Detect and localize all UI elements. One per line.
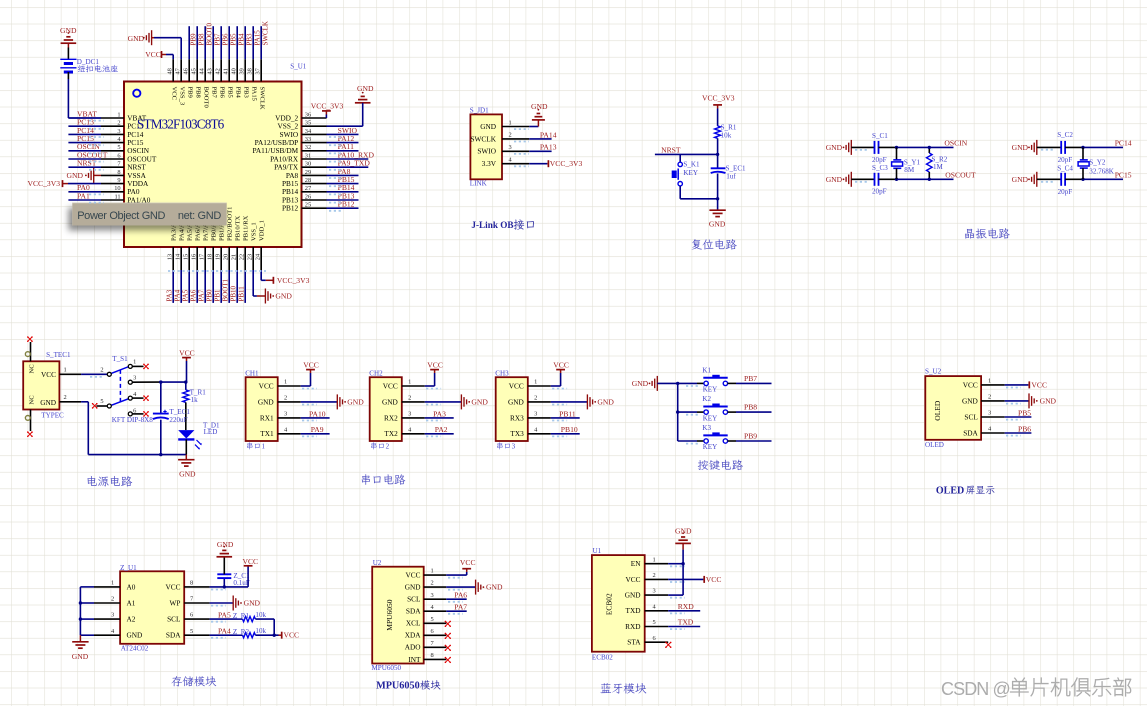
svg-text:2: 2: [431, 580, 434, 587]
svg-text:NRST: NRST: [661, 145, 681, 154]
svg-text:OSCOUT: OSCOUT: [945, 171, 976, 180]
wires bottom ports: [173, 270, 245, 303]
wire JD1 3.3V: [529, 163, 547, 165]
svg-text:GND: GND: [709, 220, 726, 229]
svg-text:48: 48: [166, 68, 173, 74]
svg-text:5: 5: [100, 398, 103, 405]
wire PA14: [529, 138, 551, 140]
svg-text:8: 8: [431, 652, 434, 659]
junction: [895, 178, 898, 181]
svg-text:GND: GND: [962, 396, 978, 405]
svg-text:PB8: PB8: [197, 33, 205, 46]
svg-text:1k: 1k: [191, 396, 199, 404]
label U2: [373, 559, 382, 567]
svg-text:GND: GND: [275, 292, 292, 301]
battery D_DC1: [60, 58, 118, 79]
svg-text:GND: GND: [597, 398, 614, 407]
svg-text:10k: 10k: [721, 131, 732, 139]
svg-text:KEY: KEY: [683, 169, 698, 177]
svg-text:20pF: 20pF: [872, 188, 887, 196]
section title 晶振电路: [965, 228, 1010, 239]
wire SCL: [210, 618, 243, 620]
svg-text:2: 2: [284, 395, 287, 402]
junction: [716, 153, 719, 156]
junction: [1081, 146, 1084, 149]
svg-text:6: 6: [117, 152, 120, 159]
svg-text:OLED: OLED: [936, 485, 964, 496]
svg-text:38: 38: [246, 68, 253, 74]
power VCC T: [179, 348, 195, 382]
connector CH3: [496, 377, 551, 441]
wire keys gnd bus: [657, 383, 697, 441]
wire PC15: [1083, 178, 1123, 180]
section title J-Link OB接口: [471, 219, 534, 230]
svg-text:PB11/RX: PB11/RX: [243, 215, 250, 241]
svg-text:PB11: PB11: [559, 409, 576, 418]
svg-text:PB6: PB6: [1018, 424, 1031, 433]
capacitor S_EC1: [711, 155, 746, 199]
svg-text:OLED: OLED: [933, 400, 942, 421]
ground S_C2: [1012, 140, 1037, 155]
power VCC_3V3 reset: [702, 93, 735, 126]
label CH3: [495, 369, 509, 377]
junction: [159, 380, 187, 383]
connector S_TEC1: [23, 342, 81, 431]
svg-text:PB3: PB3: [242, 87, 249, 99]
svg-text:GND: GND: [480, 122, 496, 131]
svg-text:INT: INT: [408, 655, 421, 664]
svg-text:MPU6050: MPU6050: [376, 681, 420, 692]
svg-text:VCC: VCC: [165, 582, 180, 591]
svg-text:PB10: PB10: [561, 425, 578, 434]
svg-text:1: 1: [431, 568, 434, 575]
svg-text:Z_R1: Z_R1: [233, 612, 250, 620]
svg-text:A1: A1: [127, 598, 136, 607]
ground keys: [632, 376, 658, 391]
no-connect sw5: [92, 403, 98, 409]
IMU module U2: [372, 567, 446, 664]
wire TEC VCC: [81, 373, 107, 375]
ground storage: [72, 635, 89, 661]
svg-text:34: 34: [305, 128, 312, 135]
svg-text:GND: GND: [67, 171, 84, 180]
svg-text:PA3: PA3: [166, 289, 174, 301]
svg-text:VCC: VCC: [303, 361, 319, 370]
title STM32F103C8T6: [137, 117, 225, 132]
net label PB8: [744, 403, 757, 412]
svg-text:RX2: RX2: [384, 413, 398, 422]
svg-text:5: 5: [431, 616, 434, 623]
svg-text:20: 20: [222, 254, 229, 260]
pin R to LED: [185, 402, 187, 430]
wire VBAT: [68, 79, 101, 118]
svg-text:10k: 10k: [255, 611, 266, 619]
power VCC CH2: [427, 361, 443, 373]
svg-text:LINK: LINK: [470, 180, 488, 188]
label U1: [593, 547, 602, 555]
wire OLED VCC: [1005, 384, 1029, 386]
wire BT RXD: [668, 610, 700, 612]
svg-text:6: 6: [653, 635, 656, 642]
ground power circuit: [178, 455, 196, 479]
label KFT DIP-8X8: [112, 416, 154, 424]
svg-text:GND: GND: [826, 143, 843, 152]
svg-text:GND: GND: [40, 398, 56, 407]
power VCC CH3: [553, 361, 569, 373]
svg-text:13: 13: [166, 254, 173, 260]
svg-text:32.768K: 32.768K: [1089, 167, 1115, 175]
svg-text:KEY: KEY: [703, 443, 718, 451]
svg-text:RXD: RXD: [678, 602, 695, 611]
wire NRST: [655, 153, 718, 155]
net label PA14: [540, 130, 557, 139]
svg-text:PA7: PA7: [198, 289, 206, 301]
label 串口3: [497, 442, 516, 450]
power VCC_3V3 pin24: [261, 270, 309, 285]
svg-text:VSS_1: VSS_1: [251, 222, 258, 241]
net label PA7: [454, 602, 467, 611]
junction: [716, 197, 719, 200]
label Z_U1: [120, 564, 137, 572]
net label RXD: [678, 602, 695, 611]
section title 电源电路: [87, 476, 132, 487]
svg-text:1: 1: [534, 379, 537, 386]
no-connect top: [27, 336, 33, 342]
svg-text:1: 1: [284, 379, 287, 386]
svg-text:CH1: CH1: [245, 369, 259, 377]
svg-text:20pF: 20pF: [1058, 188, 1073, 196]
svg-text:VSS_3: VSS_3: [178, 87, 185, 106]
svg-text:XCL: XCL: [406, 619, 421, 628]
Bluetooth module U1: [592, 555, 668, 652]
svg-text:2: 2: [509, 132, 512, 139]
svg-text:45: 45: [190, 68, 197, 74]
power VCC pin48: [145, 50, 166, 59]
net label PC14: [1115, 139, 1132, 148]
svg-text:S_JD1: S_JD1: [470, 106, 489, 114]
svg-text:PA6: PA6: [190, 289, 198, 301]
label 串口2: [371, 442, 390, 450]
tooltip Power Object GND: [72, 203, 226, 226]
wires right ports: [327, 134, 369, 208]
svg-text:PB3: PB3: [245, 33, 253, 46]
svg-text:PB5: PB5: [226, 87, 233, 99]
svg-text:19: 19: [214, 254, 221, 260]
svg-text:1: 1: [111, 580, 114, 587]
pushbutton K3: [697, 424, 736, 451]
section title 蓝牙模块: [600, 683, 646, 694]
svg-text:KFT DIP-8X8: KFT DIP-8X8: [112, 416, 154, 424]
svg-text:S_U2: S_U2: [925, 368, 942, 376]
wire BT gnd bus: [668, 550, 683, 596]
svg-text:PB6: PB6: [221, 33, 229, 46]
svg-text:2: 2: [386, 443, 390, 451]
wire PA9: [301, 433, 330, 435]
no-connect MPU pin5: [445, 621, 451, 627]
svg-text:3: 3: [512, 443, 516, 451]
label MPU6050: [372, 664, 402, 672]
svg-text:11: 11: [114, 193, 120, 200]
junction: [1081, 178, 1084, 181]
wire PA3: [425, 417, 454, 419]
svg-text:2: 2: [117, 120, 120, 127]
power VCC BT: [703, 575, 721, 584]
svg-text:VCC: VCC: [41, 370, 56, 379]
svg-text:SWCLK: SWCLK: [470, 134, 496, 143]
wire PA10: [301, 417, 330, 419]
no-connect STA: [665, 642, 671, 648]
OLED module S_U2: [925, 376, 1004, 440]
svg-text:S_R1: S_R1: [721, 124, 737, 132]
svg-text:T_S1: T_S1: [112, 355, 128, 363]
svg-text:Z_R2: Z_R2: [233, 628, 250, 636]
net label PB9: [744, 431, 757, 440]
svg-text:VCC_3V3: VCC_3V3: [277, 276, 310, 285]
ground S_C4: [1012, 172, 1037, 187]
svg-text:17: 17: [198, 253, 205, 260]
svg-text:VCC_3V3: VCC_3V3: [702, 93, 735, 102]
svg-text:S_EC1: S_EC1: [726, 164, 747, 172]
capacitor S_C2: [1037, 131, 1083, 164]
resistor Z_R1: [233, 611, 267, 622]
svg-text:PB9: PB9: [744, 431, 757, 440]
svg-text:A0: A0: [127, 582, 136, 591]
wire CH2 GND: [425, 401, 462, 403]
svg-text:S_C3: S_C3: [872, 164, 888, 172]
svg-text:PA4: PA4: [218, 626, 231, 635]
svg-text:GND: GND: [127, 631, 143, 640]
svg-text:43: 43: [206, 68, 213, 74]
svg-text:RX1: RX1: [260, 413, 274, 422]
svg-text:GND: GND: [1012, 143, 1029, 152]
svg-text:U1: U1: [593, 547, 602, 555]
svg-text:VCC: VCC: [625, 575, 640, 584]
svg-text:TX3: TX3: [510, 429, 524, 438]
svg-text:PA13: PA13: [540, 143, 557, 152]
svg-text:ECB02: ECB02: [592, 653, 613, 661]
svg-text:K3: K3: [702, 424, 711, 432]
wire VCC: [166, 55, 173, 60]
svg-text:3: 3: [988, 410, 991, 417]
svg-text:3.3V: 3.3V: [482, 159, 497, 168]
watermark CSDN: [941, 678, 1131, 699]
svg-text:220uF: 220uF: [169, 416, 187, 424]
ground pin23 VSS_1: [253, 270, 292, 304]
svg-text:44: 44: [198, 67, 205, 74]
net label PB6: [1018, 424, 1031, 433]
svg-text:VCC: VCC: [284, 631, 300, 640]
svg-text:TYPEC: TYPEC: [41, 412, 64, 420]
svg-text:PB12: PB12: [338, 200, 355, 209]
power VCC storage right: [279, 631, 300, 640]
svg-text:PB5: PB5: [1018, 408, 1031, 417]
svg-text:BOOT0: BOOT0: [205, 22, 213, 45]
net label PA2: [435, 425, 448, 434]
svg-text:PA3: PA3: [433, 409, 446, 418]
label AT24C02: [121, 644, 149, 652]
svg-text:10: 10: [114, 185, 120, 192]
label ECB02: [592, 653, 613, 661]
svg-text:STM32F103C8T6: STM32F103C8T6: [137, 117, 225, 132]
svg-text:22: 22: [238, 254, 245, 260]
svg-text:OLED: OLED: [925, 441, 944, 449]
svg-text:PB9: PB9: [186, 87, 193, 99]
svg-text:2: 2: [534, 395, 537, 402]
net labels left: [77, 109, 108, 200]
svg-text:PA15: PA15: [250, 87, 257, 102]
wire SDA: [210, 634, 243, 636]
svg-text:TXD: TXD: [626, 606, 641, 615]
power VCC_3V3 J-Link: [547, 159, 582, 168]
net label PB10: [561, 425, 578, 434]
svg-text:14: 14: [174, 253, 181, 260]
svg-text:15: 15: [182, 254, 189, 260]
svg-text:PB6: PB6: [218, 87, 225, 99]
junction: [159, 453, 162, 456]
svg-text:2: 2: [64, 394, 67, 401]
svg-text:GND: GND: [217, 540, 234, 549]
svg-text:Z_U1: Z_U1: [120, 564, 137, 572]
svg-text:SWCLK: SWCLK: [258, 87, 265, 110]
svg-text:1: 1: [408, 379, 411, 386]
compile marks: [89, 121, 1055, 638]
svg-text:30: 30: [305, 161, 311, 168]
wire PB11: [551, 417, 580, 419]
resistor S_R1: [715, 124, 737, 155]
svg-text:32: 32: [305, 144, 311, 151]
connector S_JD1: [470, 114, 529, 179]
svg-text:1: 1: [117, 111, 120, 118]
svg-text:GND: GND: [531, 102, 548, 111]
label TYPEC: [41, 412, 64, 420]
svg-text:BOOT1: BOOT1: [222, 278, 230, 301]
MCU S_U1 STM32F103C8T6: [101, 59, 327, 270]
svg-text:K1: K1: [702, 366, 711, 374]
no-connect MPU pin6: [445, 633, 451, 639]
svg-text:42: 42: [214, 68, 221, 74]
svg-text:D_DC1: D_DC1: [77, 58, 100, 66]
wire OSCOUT: [897, 178, 954, 180]
svg-text:VCC: VCC: [509, 381, 524, 390]
net label PC15: [1115, 171, 1132, 180]
svg-text:PB7: PB7: [210, 87, 217, 99]
svg-text:PB9: PB9: [189, 33, 197, 46]
svg-text:2: 2: [653, 572, 656, 579]
section title 串口电路: [362, 474, 406, 485]
net labels top: [189, 21, 269, 46]
wire PB6: [1005, 432, 1032, 434]
crystal S_Y1: [892, 147, 921, 179]
svg-text:GND: GND: [347, 398, 364, 407]
svg-text:SWCLK: SWCLK: [261, 21, 269, 46]
capacitor T_EC1: [153, 382, 190, 455]
switch T_S1: [96, 355, 159, 416]
svg-text:EN: EN: [631, 559, 641, 568]
svg-text:PA14: PA14: [540, 130, 557, 139]
resistor Z_R2: [233, 627, 267, 638]
svg-text:GND: GND: [244, 599, 261, 608]
wire PB5: [1005, 416, 1032, 418]
compile marks chip bottom: [168, 270, 266, 272]
wire key to rail: [680, 186, 717, 199]
svg-text:PA15: PA15: [253, 30, 261, 46]
svg-text:S_K1: S_K1: [683, 161, 700, 169]
section title OLED屏显示: [936, 485, 995, 496]
net label OSCOUT: [945, 171, 976, 180]
svg-text:PB12: PB12: [282, 204, 299, 213]
ground pin8 VSSA: [67, 168, 102, 183]
svg-text:33: 33: [305, 136, 311, 143]
ground BT: [675, 527, 692, 550]
wire PB9: [736, 440, 772, 442]
svg-text:GND: GND: [405, 583, 421, 592]
svg-text:PB10: PB10: [230, 285, 238, 301]
svg-text:21: 21: [230, 254, 237, 260]
net label PA6: [454, 590, 467, 599]
svg-text:VCC_3V3: VCC_3V3: [311, 102, 344, 111]
svg-text:GND: GND: [625, 591, 641, 600]
svg-text:PB7: PB7: [744, 374, 757, 383]
power VCC OLED: [1028, 380, 1047, 389]
wire TEC GND: [81, 402, 186, 455]
LED T_D1: [178, 422, 220, 455]
svg-text:GND: GND: [1012, 175, 1029, 184]
net label PA3: [433, 409, 446, 418]
svg-text:GND: GND: [382, 397, 398, 406]
wire BT VCC: [668, 578, 703, 580]
section title MPU6050模块: [376, 680, 440, 691]
svg-text:2: 2: [111, 596, 114, 603]
svg-text:PA5: PA5: [218, 610, 231, 619]
net label PB5: [1018, 408, 1031, 417]
svg-text:GND: GND: [826, 175, 843, 184]
svg-text:31: 31: [305, 152, 311, 159]
wire PA6: [446, 598, 466, 600]
svg-text:3: 3: [431, 592, 434, 599]
svg-text:SDA: SDA: [963, 428, 978, 437]
ground S_C1: [826, 140, 852, 155]
svg-text:VCC: VCC: [243, 557, 259, 566]
svg-text:RXD: RXD: [625, 622, 640, 631]
wire PA7: [446, 610, 466, 612]
svg-text:25: 25: [305, 202, 311, 209]
ground Z_C1: [217, 540, 234, 557]
label CH2: [369, 369, 383, 377]
svg-text:VCC: VCC: [553, 361, 569, 370]
svg-text:2: 2: [408, 395, 411, 402]
connector CH1: [246, 377, 301, 441]
svg-text:PC14: PC14: [1115, 139, 1132, 148]
svg-text:SCL: SCL: [407, 595, 421, 604]
svg-text:29: 29: [305, 169, 311, 176]
wire OLED GND: [1005, 400, 1029, 402]
svg-text:MPU6050: MPU6050: [372, 664, 402, 672]
svg-text:SDA: SDA: [166, 631, 181, 640]
junction: [928, 146, 931, 181]
svg-text:18: 18: [206, 254, 213, 260]
wire key branch: [679, 154, 681, 162]
svg-text:1: 1: [262, 443, 266, 451]
svg-text:24: 24: [254, 253, 261, 260]
svg-text:3: 3: [653, 588, 656, 595]
svg-text:NRST: NRST: [77, 159, 97, 168]
svg-text:PB10/TX: PB10/TX: [235, 215, 242, 241]
svg-text:SCL: SCL: [167, 615, 181, 624]
net label PA5: [218, 610, 231, 619]
net label NRST: [661, 145, 681, 154]
ground CH2: [461, 394, 488, 409]
wire VCC node: [210, 586, 249, 588]
